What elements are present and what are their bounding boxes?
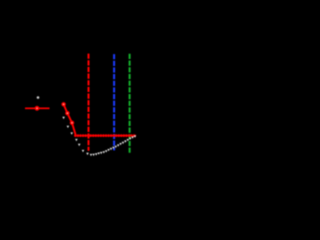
red curve marker 3: [70, 121, 74, 125]
red dotted horizontal asymptote line: [74, 134, 138, 137]
blue dashed vertical line: [113, 54, 115, 150]
red level line: [25, 107, 50, 109]
white dot marker: [37, 96, 40, 99]
red dashed vertical line: [88, 54, 90, 151]
red level circle marker: [35, 106, 40, 111]
red curve marker 2: [65, 111, 69, 115]
red curve marker 1: [61, 102, 65, 106]
white dotted potential curve: [62, 117, 136, 156]
green dashed vertical line: [129, 54, 131, 153]
red steep curve: [64, 104, 76, 135]
